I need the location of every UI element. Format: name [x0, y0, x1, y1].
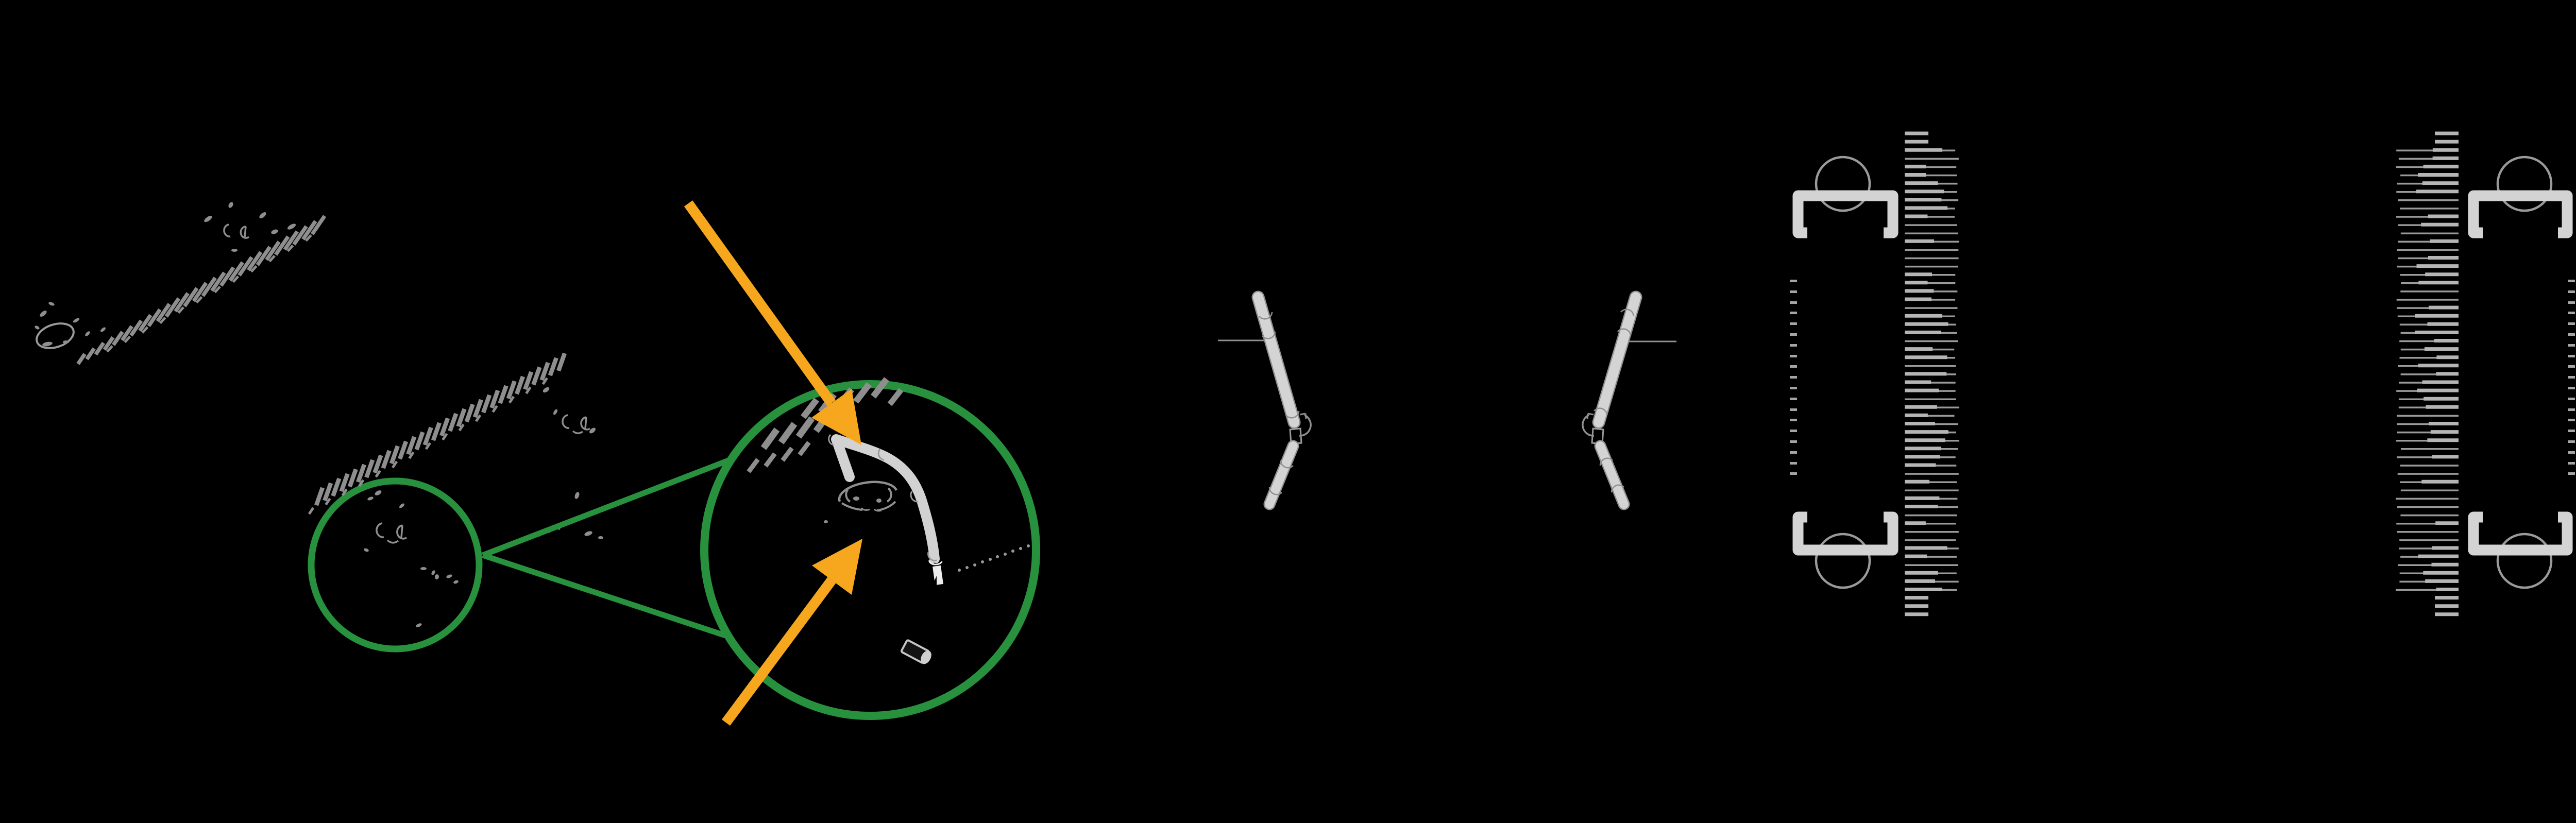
rod C ticks upper — [1259, 312, 1272, 319]
small callout circle — [311, 481, 479, 649]
clamp F serrated column — [2396, 133, 2459, 614]
dotted edge line — [958, 544, 1030, 572]
rod C upper segment — [1258, 297, 1294, 422]
rasp strip A teeth — [78, 216, 325, 364]
magnified end hole ellipse — [824, 482, 896, 523]
tube tip segment — [937, 566, 939, 585]
bent tube left leg — [837, 440, 850, 477]
magnified teeth inside magnifier — [749, 379, 901, 472]
callout tangent line lower — [483, 555, 725, 636]
clamp F bottom bracket — [2473, 517, 2567, 550]
rasp strip A end ring — [33, 301, 107, 352]
rod D pointer line — [1628, 341, 1676, 342]
clamp F dotted line — [2568, 280, 2575, 475]
clamp E bottom bracket — [1798, 517, 1893, 550]
rasp strip B teeth — [309, 353, 565, 514]
clamp E serrated column — [1905, 133, 1959, 614]
orange arrow upper — [688, 203, 832, 403]
clamp F top circle — [2498, 157, 2551, 211]
nozzle — [901, 639, 933, 665]
clamp E top bracket — [1798, 196, 1893, 233]
magnifier green circle — [704, 384, 1036, 716]
clamp E dotted line — [1790, 280, 1797, 475]
rod C bend arc — [1299, 415, 1311, 436]
rasp strip B head details — [542, 386, 603, 539]
rod C group — [1218, 297, 1311, 504]
callout tangent line upper — [483, 460, 728, 555]
clamp E bottom circle — [1816, 534, 1870, 588]
clamp E top circle — [1816, 157, 1870, 211]
rod C joint — [1290, 428, 1301, 444]
orange arrow lower — [726, 580, 832, 723]
rod D upper segment — [1599, 297, 1636, 422]
details inside small callout circle — [363, 489, 459, 628]
clamp F top bracket — [2473, 196, 2567, 233]
rod C lower segment — [1269, 446, 1293, 504]
rod C pointer line — [1218, 340, 1277, 341]
bent tube right leg — [836, 439, 935, 559]
rod D group — [1583, 297, 1676, 504]
tube collar ticks — [829, 435, 942, 564]
rod D joint — [1592, 428, 1603, 444]
rod D bend arc — [1583, 415, 1594, 436]
rod C ticks lower — [1281, 460, 1293, 468]
rasp strip A head details — [203, 201, 296, 252]
rod D ticks lower — [1600, 458, 1613, 466]
dotted trail near apex — [489, 527, 560, 552]
rod D ticks upper — [1621, 310, 1634, 316]
rod D lower segment — [1600, 446, 1624, 504]
clamp F bottom circle — [2498, 534, 2551, 588]
